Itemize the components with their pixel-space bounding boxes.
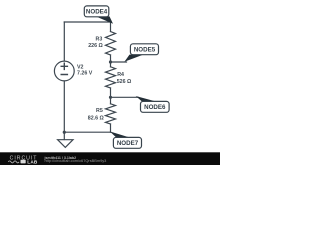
svg-text:526 Ω: 526 Ω — [117, 79, 132, 85]
svg-text:NODE6: NODE6 — [144, 104, 166, 111]
svg-text:http://circuitlab.com/c67QrsBB: http://circuitlab.com/c67QrsBBm9y3 — [45, 158, 107, 163]
svg-text:NODE5: NODE5 — [134, 47, 156, 54]
svg-text:7.26 V: 7.26 V — [77, 71, 93, 77]
svg-text:R3: R3 — [96, 36, 103, 42]
svg-text:82.6 Ω: 82.6 Ω — [88, 116, 105, 122]
svg-text:R4: R4 — [117, 72, 124, 78]
svg-text:LAB: LAB — [27, 159, 38, 164]
svg-text:226 Ω: 226 Ω — [88, 43, 103, 49]
svg-text:NODE7: NODE7 — [117, 140, 139, 147]
svg-text:NODE4: NODE4 — [86, 9, 108, 16]
svg-text:V2: V2 — [77, 64, 84, 70]
svg-text:R5: R5 — [96, 108, 103, 114]
